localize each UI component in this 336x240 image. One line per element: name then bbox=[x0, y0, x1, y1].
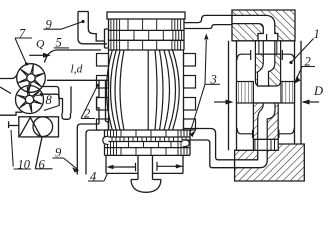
svg-text:4: 4 bbox=[90, 170, 96, 184]
svg-text:8: 8 bbox=[46, 93, 53, 107]
svg-text:9: 9 bbox=[46, 18, 53, 32]
svg-text:Q: Q bbox=[36, 39, 45, 51]
svg-text:6: 6 bbox=[39, 158, 46, 172]
svg-text:2: 2 bbox=[84, 107, 90, 121]
svg-text:5: 5 bbox=[56, 36, 62, 50]
svg-text:9: 9 bbox=[55, 146, 62, 160]
svg-text:3: 3 bbox=[210, 73, 217, 87]
svg-text:7: 7 bbox=[19, 27, 26, 41]
svg-text:l,d: l,d bbox=[71, 64, 83, 76]
svg-text:D: D bbox=[313, 84, 323, 98]
svg-text:1: 1 bbox=[314, 27, 320, 41]
svg-text:10: 10 bbox=[18, 158, 31, 172]
svg-text:2: 2 bbox=[305, 55, 311, 69]
